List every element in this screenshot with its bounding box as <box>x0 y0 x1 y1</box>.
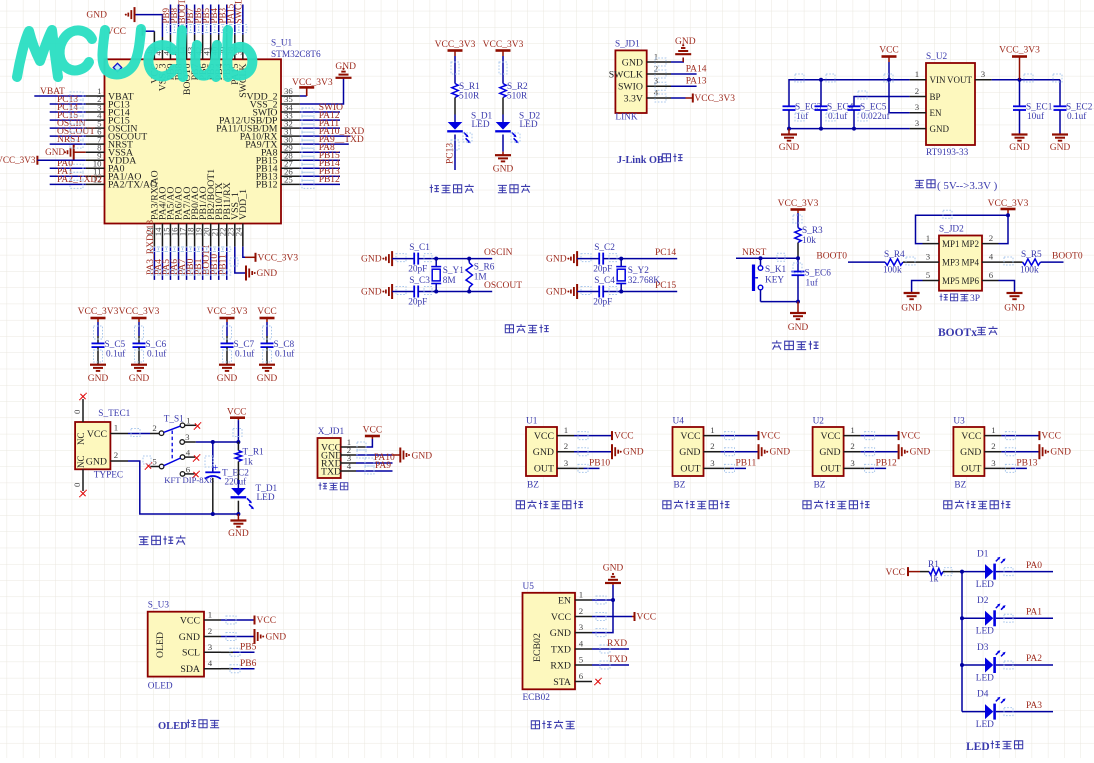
power VCC_3V3 at pin VDD_2 <box>300 95 307 97</box>
pin 42 PB6 <box>202 34 204 59</box>
wire net PB11 <box>721 467 731 469</box>
wire <box>454 98 456 115</box>
pin 39 PB3 <box>226 34 228 59</box>
capacitor S_C3 20pF <box>413 286 415 298</box>
svg-text:OLED: OLED <box>158 721 188 732</box>
resistor R1 1k <box>929 568 943 574</box>
svg-text:LED: LED <box>976 627 994 637</box>
svg-text:S_C4: S_C4 <box>594 276 615 286</box>
svg-text:RXD: RXD <box>607 639 627 649</box>
svg-text:3P: 3P <box>970 294 980 304</box>
wire <box>226 322 228 336</box>
pin 47 VSS_3 <box>161 37 163 59</box>
pin 4 3.3V <box>647 97 671 99</box>
svg-text:VCC: VCC <box>363 426 383 436</box>
ground GND <box>131 364 147 366</box>
wire <box>797 243 799 259</box>
capacitor S_C1 20pF <box>413 253 415 265</box>
svg-text:R1: R1 <box>928 560 939 570</box>
pin 38 PA15 <box>234 34 236 59</box>
title 电源电路 <box>139 537 149 545</box>
wire <box>418 291 492 293</box>
ground GND <box>221 636 254 638</box>
svg-text:BZ: BZ <box>674 481 686 491</box>
svg-text:TYPEC: TYPEC <box>94 471 123 481</box>
svg-text:VCC: VCC <box>1041 432 1061 442</box>
svg-text:3: 3 <box>850 458 855 468</box>
svg-text:3: 3 <box>579 622 584 632</box>
svg-text:GND: GND <box>179 632 200 643</box>
svg-text:S_U2: S_U2 <box>926 52 948 62</box>
pin 1 VCC <box>341 446 356 448</box>
pin 3 OUT <box>704 467 721 469</box>
svg-text:RT9193-33: RT9193-33 <box>926 148 969 158</box>
wire <box>454 56 456 84</box>
ground GND <box>1059 110 1061 135</box>
pin 6 MP6 <box>982 280 999 282</box>
svg-text:1: 1 <box>579 590 583 600</box>
ground GND at pin VSSA <box>73 145 75 160</box>
pin 1 VCC <box>204 619 221 621</box>
svg-text:1: 1 <box>208 610 212 620</box>
svg-text:510R: 510R <box>459 92 480 102</box>
svg-text:S_C7: S_C7 <box>234 340 255 350</box>
svg-text:2: 2 <box>208 626 212 636</box>
svg-text:GND: GND <box>361 288 382 298</box>
wire net PB12 <box>861 467 871 469</box>
svg-text:GND: GND <box>266 633 287 643</box>
pin 32 PA11/USB/DM <box>281 127 300 129</box>
wire net PA11 <box>300 127 340 129</box>
svg-text:MP3: MP3 <box>942 257 960 267</box>
wire <box>266 322 268 336</box>
wire net PB0 <box>194 247 196 280</box>
svg-text:1: 1 <box>850 425 854 435</box>
pin 25 PB12 <box>281 183 300 185</box>
svg-text:S_C5: S_C5 <box>105 340 126 350</box>
svg-text:2: 2 <box>850 441 854 451</box>
pin 1 VCC <box>704 435 721 437</box>
svg-text:S_EC4: S_EC4 <box>827 103 854 113</box>
wire net PA13 <box>671 85 697 87</box>
wire net PA8 <box>300 151 340 153</box>
svg-text:VCC: VCC <box>637 613 657 623</box>
svg-text:S_EC3: S_EC3 <box>795 103 822 113</box>
pin 2 GND <box>110 460 128 462</box>
ground GND <box>1014 292 1016 294</box>
resistor S_R6 1M <box>468 259 470 263</box>
wire net PA2 <box>996 664 1053 666</box>
ground GND at pin VSS_1 <box>235 247 246 273</box>
svg-text:5: 5 <box>152 456 157 466</box>
svg-text:BZ: BZ <box>814 481 826 491</box>
wire net PC15 <box>50 119 86 121</box>
pin 2 GND <box>341 454 356 456</box>
pin 3 VOUT <box>975 79 992 81</box>
pin 10 PA0 <box>86 167 105 169</box>
ground GND <box>259 364 275 366</box>
svg-text:LED: LED <box>520 120 538 130</box>
svg-text:TXD: TXD <box>551 644 571 655</box>
wire <box>820 80 822 107</box>
LED S_D1 <box>448 122 463 130</box>
ground GND <box>788 129 790 135</box>
ground GND (top) <box>391 251 393 266</box>
svg-text:GND: GND <box>228 529 249 539</box>
svg-text:OUT: OUT <box>680 464 700 475</box>
svg-text:STM32C8T6: STM32C8T6 <box>271 50 321 60</box>
pin 1 VBAT <box>86 95 105 97</box>
power VCC <box>574 435 612 437</box>
svg-text:S_R2: S_R2 <box>507 82 528 92</box>
svg-text:GND: GND <box>86 11 107 21</box>
svg-text:32.768K: 32.768K <box>628 276 661 286</box>
svg-text:GND: GND <box>1050 448 1071 458</box>
svg-text:S_C8: S_C8 <box>274 340 295 350</box>
wire <box>603 258 677 260</box>
pin 11 PA1/AO <box>86 175 105 177</box>
wire net PB3 <box>226 5 228 35</box>
svg-text:MP1: MP1 <box>942 239 960 249</box>
svg-text:VCC: VCC <box>885 568 905 578</box>
svg-text:( 5V-->3.3V ): ( 5V-->3.3V ) <box>937 180 998 192</box>
wire <box>761 301 799 303</box>
svg-text:2: 2 <box>579 606 583 616</box>
svg-text:VCC_3V3: VCC_3V3 <box>292 78 333 88</box>
svg-text:3.3V: 3.3V <box>624 93 643 104</box>
pin 12 PA2/TX/AO <box>86 183 105 185</box>
svg-text:0.1uf: 0.1uf <box>828 111 848 122</box>
wire net BOOT0 (left) <box>848 261 885 263</box>
pin 1 MP1 <box>923 243 940 245</box>
svg-text:25: 25 <box>284 175 293 185</box>
svg-text:VCC_3V3: VCC_3V3 <box>999 46 1040 56</box>
capacitor S_C7 0.1uf <box>221 342 234 344</box>
pin 3 GND <box>910 128 926 130</box>
wire net RXD <box>592 648 629 650</box>
capacitor S_EC3 1uf <box>783 105 796 107</box>
svg-text:S_C1: S_C1 <box>409 243 430 253</box>
wire LED bus <box>961 572 963 712</box>
ground GND <box>219 364 235 366</box>
svg-text:VCC: VCC <box>534 431 554 442</box>
pin 4 MP4 <box>982 261 999 263</box>
svg-text:4: 4 <box>186 448 191 458</box>
svg-text:LED: LED <box>472 120 490 130</box>
wire VCC to EN <box>889 62 910 113</box>
svg-text:0.1uf: 0.1uf <box>106 349 126 360</box>
wire to ground <box>356 454 392 456</box>
svg-text:6: 6 <box>186 465 191 475</box>
pin 33 PA12/USB/DP <box>281 119 300 121</box>
wire net PA10 <box>356 462 393 464</box>
ground GND <box>1001 451 1038 453</box>
power VCC <box>221 619 255 621</box>
svg-text:PA13: PA13 <box>686 77 707 87</box>
wire net PA10_RXD <box>300 135 351 137</box>
power VCC_3V3 at pin VDD_1 <box>243 247 245 258</box>
svg-text:PB6: PB6 <box>240 659 257 669</box>
wire <box>128 433 150 435</box>
svg-text:1: 1 <box>186 416 190 426</box>
svg-text:220uf: 220uf <box>225 477 248 488</box>
power VCC_3V3 <box>671 97 686 99</box>
svg-text:VCC_3V3: VCC_3V3 <box>207 307 248 317</box>
wire net PA2_TXD2 <box>50 183 86 185</box>
svg-text:8M: 8M <box>443 276 456 286</box>
LED T_D1 <box>231 488 246 496</box>
svg-text:VCC_3V3: VCC_3V3 <box>0 155 36 165</box>
svg-text:T_R1: T_R1 <box>243 448 265 458</box>
svg-text:4: 4 <box>579 639 584 649</box>
svg-text:1: 1 <box>926 233 930 243</box>
ground GND <box>675 53 691 55</box>
pin 1 EN <box>575 599 592 601</box>
svg-text:OLED: OLED <box>155 632 166 658</box>
svg-text:PB11: PB11 <box>736 459 757 469</box>
LED D3 <box>962 664 985 666</box>
svg-text:NC: NC <box>76 432 86 445</box>
wire net VBAT <box>34 95 85 97</box>
wire net PA3_RXD213 <box>153 247 155 280</box>
title 蓝牙模块 <box>531 721 539 729</box>
svg-text:U2: U2 <box>813 417 825 427</box>
svg-text:VCC: VCC <box>879 46 899 56</box>
ground GND <box>90 364 106 366</box>
title 可编程灯 <box>430 184 439 192</box>
svg-text:BP: BP <box>930 92 941 102</box>
svg-text:2: 2 <box>564 441 568 451</box>
svg-text:S_C6: S_C6 <box>146 340 167 350</box>
svg-text:S_C2: S_C2 <box>594 243 615 253</box>
wire net PA0 <box>996 571 1053 573</box>
ground GND <box>797 302 799 313</box>
svg-text:24: 24 <box>234 227 244 236</box>
resistor S_R5 100k <box>1023 259 1041 265</box>
svg-text:GND: GND <box>412 451 433 461</box>
wire <box>392 258 414 260</box>
wire pin3 rail <box>196 441 239 443</box>
svg-text:2: 2 <box>654 64 658 74</box>
wire net PB11 <box>226 247 228 280</box>
svg-text:10uf: 10uf <box>1027 111 1045 122</box>
svg-text:4: 4 <box>989 252 994 262</box>
pin 41 PB5 <box>210 34 212 59</box>
wire <box>138 322 140 336</box>
svg-text:1: 1 <box>991 425 995 435</box>
wire net BOOT0 <box>186 5 188 35</box>
svg-text:MP6: MP6 <box>961 276 979 286</box>
pin 3 EN <box>910 112 926 114</box>
pin 2 GND <box>704 451 721 453</box>
svg-text:VCC_3V3: VCC_3V3 <box>694 94 735 104</box>
svg-text:VCC: VCC <box>680 431 700 442</box>
svg-text:1: 1 <box>114 423 118 433</box>
svg-text:20pF: 20pF <box>408 265 427 275</box>
pin 14 PA4/AO <box>161 224 163 247</box>
pin 16 PA6/AO <box>178 224 180 247</box>
pin 9 VDDA <box>86 159 105 161</box>
svg-text:EN: EN <box>930 108 942 118</box>
wire net PA14 <box>671 73 697 75</box>
wire net PB5 <box>221 651 233 653</box>
capacitor S_C6 0.1uf <box>133 342 146 344</box>
wire <box>502 56 504 84</box>
svg-text:PB13: PB13 <box>1016 459 1037 469</box>
wire net PA1 <box>50 175 86 177</box>
ground GND <box>495 154 511 156</box>
svg-text:GND: GND <box>910 448 931 458</box>
svg-text:2: 2 <box>915 86 919 96</box>
crystal S_Y1 8M <box>435 259 437 267</box>
wire net PB13 <box>1001 467 1011 469</box>
pin 3 RXD <box>341 462 356 464</box>
capacitor S_C4 20pF <box>598 286 600 298</box>
wire <box>226 347 228 365</box>
svg-text:S_K1: S_K1 <box>765 265 787 275</box>
pin 18 PB0/AO <box>194 224 196 247</box>
svg-text:GND: GND <box>788 323 809 333</box>
pin 5 MP5 <box>923 280 940 282</box>
svg-text:3: 3 <box>926 252 931 262</box>
title 电源灯 <box>498 185 507 192</box>
resistor S_R1 510R <box>452 84 458 98</box>
svg-text:VCC: VCC <box>180 615 200 626</box>
svg-text:5: 5 <box>926 270 931 280</box>
svg-text:SWCLK: SWCLK <box>609 69 643 80</box>
svg-text:S_R6: S_R6 <box>474 263 495 273</box>
pin 4 TXD <box>341 470 356 472</box>
svg-text:LED: LED <box>966 741 990 753</box>
svg-text:1M: 1M <box>474 273 487 283</box>
svg-text:VCC_3V3: VCC_3V3 <box>435 40 476 50</box>
pin 2 GND <box>204 636 221 638</box>
capacitor S_C8 0.1uf <box>261 342 274 344</box>
svg-text:S_EC2: S_EC2 <box>1066 103 1093 113</box>
svg-text:VCC_3V3: VCC_3V3 <box>119 307 160 317</box>
power VCC <box>861 435 899 437</box>
pin 4 PC15 <box>86 119 105 121</box>
resistor S_R3 10k <box>795 228 801 243</box>
pin 2 MP2 <box>982 243 999 245</box>
title 红外避障模块 <box>516 501 524 509</box>
svg-text:GND: GND <box>1009 143 1030 153</box>
svg-text:GND: GND <box>88 374 109 384</box>
svg-text:GND: GND <box>603 564 624 574</box>
key S_K1 KEY <box>760 258 762 265</box>
svg-text:GND: GND <box>622 57 643 68</box>
svg-text:VCC: VCC <box>551 612 571 623</box>
LED D1 <box>985 564 993 579</box>
svg-text:PB11: PB11 <box>218 254 228 275</box>
ground GND <box>861 451 898 453</box>
svg-text:PA2: PA2 <box>1026 654 1042 664</box>
wire <box>943 571 962 573</box>
pin 22 PB11/RX <box>226 224 228 247</box>
svg-text:3: 3 <box>185 432 190 442</box>
svg-text:LED: LED <box>976 580 994 590</box>
wire <box>502 135 504 152</box>
svg-text:MP5: MP5 <box>942 276 960 286</box>
ground GND <box>1019 110 1021 135</box>
pin 2 BP <box>910 96 926 98</box>
svg-text:VCC: VCC <box>227 407 247 417</box>
MCUclub logo <box>17 29 252 77</box>
svg-text:1uf: 1uf <box>806 278 819 289</box>
wire net NRST <box>736 257 798 259</box>
svg-text:OUT: OUT <box>820 464 840 475</box>
svg-text:PA9: PA9 <box>375 461 391 471</box>
wire <box>97 347 99 365</box>
svg-text:VCC: VCC <box>87 429 107 440</box>
resistor S_R4 100k <box>885 259 903 265</box>
svg-text:S_R1: S_R1 <box>459 82 480 92</box>
wire net PB4 <box>218 5 220 35</box>
svg-text:BOOT0: BOOT0 <box>816 252 847 262</box>
svg-text:PA0: PA0 <box>1026 561 1042 571</box>
svg-text:ECB02: ECB02 <box>532 633 543 662</box>
wire <box>999 261 1023 263</box>
pin 6 OSCOUT <box>86 135 105 137</box>
svg-text:2: 2 <box>991 441 995 451</box>
title 红外避障模块 <box>944 501 952 509</box>
wire bottom rail <box>128 461 238 514</box>
wire net PB5 <box>210 5 212 35</box>
svg-text:S_JD1: S_JD1 <box>615 40 640 50</box>
wire <box>392 291 414 293</box>
wire jumper loop <box>916 215 1009 243</box>
op-amp S_U1 STM32C8T6 MCU body <box>105 59 282 223</box>
svg-text:GND: GND <box>335 62 356 72</box>
wire <box>920 571 929 573</box>
ground GND at pin VSS_2 <box>300 78 344 104</box>
svg-text:BOOT0: BOOT0 <box>1052 252 1083 262</box>
svg-text:TXD: TXD <box>321 466 341 477</box>
svg-text:VCC: VCC <box>961 431 981 442</box>
svg-text:PA1: PA1 <box>1026 608 1042 618</box>
ground GND at pin 47 <box>135 15 163 37</box>
wire net BOOT1 <box>210 247 212 280</box>
svg-text:GND: GND <box>550 628 571 639</box>
pin 2 VCC <box>575 616 592 618</box>
svg-text:SDA: SDA <box>180 664 200 675</box>
pin 30 PA9/TX <box>281 143 300 145</box>
title 红外避障模块 <box>803 501 811 509</box>
svg-text:S_EC5: S_EC5 <box>860 103 887 113</box>
svg-text:3: 3 <box>981 69 986 79</box>
svg-text:D3: D3 <box>977 643 989 653</box>
svg-text:D4: D4 <box>977 690 989 700</box>
wire net PA4 <box>161 247 163 280</box>
pin 0 bottom <box>82 469 84 491</box>
wire net OSCIN <box>50 127 86 129</box>
svg-text:0.1uf: 0.1uf <box>147 349 167 360</box>
wire net PB6 <box>202 5 204 35</box>
svg-text:LED: LED <box>257 493 275 503</box>
svg-text:GND: GND <box>493 165 514 175</box>
wire net PB12 <box>300 183 340 185</box>
svg-text:OUT: OUT <box>961 464 981 475</box>
power VCC_3V3 at pin VDDA <box>36 156 38 165</box>
svg-text:SWCLK: SWCLK <box>233 0 243 24</box>
crystal S_Y2 32.768K <box>620 259 622 267</box>
svg-text:LED: LED <box>976 673 994 683</box>
wire <box>237 420 239 442</box>
svg-text:J-Link OB: J-Link OB <box>617 155 664 166</box>
svg-text:S_R5: S_R5 <box>1021 250 1042 260</box>
wire to ground <box>671 58 683 63</box>
svg-text:GND: GND <box>1004 304 1025 314</box>
